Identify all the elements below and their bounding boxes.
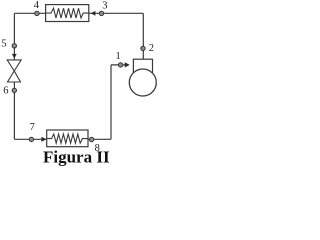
wire top-left horizontal (node4 to condenser) <box>14 12 45 14</box>
evaporator zigzag coil <box>47 134 88 143</box>
node 4 <box>35 11 39 15</box>
svg-text:2: 2 <box>149 43 154 54</box>
evaporator box <box>47 130 88 147</box>
condenser zigzag coil <box>46 8 89 18</box>
svg-text:5: 5 <box>1 38 6 49</box>
compressor circle <box>129 69 156 96</box>
wire bottom-right horizontal (evaporator to corner) <box>88 138 111 140</box>
condenser box <box>46 5 89 22</box>
svg-text:Figura II: Figura II <box>43 148 110 166</box>
svg-text:3: 3 <box>102 0 107 11</box>
svg-text:7: 7 <box>30 122 35 133</box>
node 7 <box>29 137 33 141</box>
wire compressor inlet horizontal <box>111 64 129 66</box>
expansion valve V1 (hourglass) <box>7 60 21 82</box>
arrow into condenser (pointing left) <box>91 11 96 16</box>
svg-text:6: 6 <box>3 85 8 96</box>
wire right return vertical (bottom corner up to compressor inlet) <box>110 65 112 139</box>
svg-text:4: 4 <box>34 0 40 11</box>
node 6 <box>12 88 16 92</box>
wire left vertical upper (corner to valve) <box>13 13 15 60</box>
arrow into compressor (pointing right) <box>125 62 130 67</box>
wire right vertical (corner to compressor top) <box>142 13 144 59</box>
node 3 <box>99 11 103 15</box>
arrow into evaporator (pointing right) <box>41 137 46 142</box>
svg-text:1: 1 <box>116 51 121 62</box>
node 5 <box>12 44 16 48</box>
arrow down (node5 to valve) <box>12 54 17 59</box>
wire bottom-left horizontal (corner to evaporator) <box>14 138 46 140</box>
node 2 <box>141 46 145 50</box>
wire left vertical lower (valve to bottom corner) <box>13 82 15 139</box>
node 8 <box>89 137 93 141</box>
compressor motor box <box>133 59 152 74</box>
wire top-right horizontal (condenser to corner) <box>89 12 144 14</box>
node 1 <box>118 63 122 67</box>
